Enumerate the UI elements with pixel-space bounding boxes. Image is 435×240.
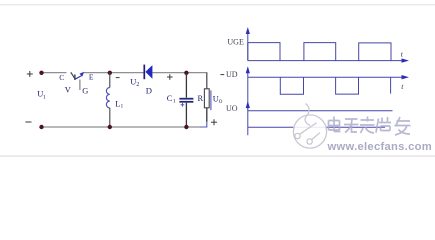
collector diagonal (71, 72, 75, 79)
waveform UGE pulse 1 (248, 43, 280, 61)
node + (UD right polarity mark) (167, 74, 173, 80)
waveform UO time axis (248, 110, 393, 112)
emitter arrowhead (80, 72, 85, 77)
node (L1 bottom junction dot) (108, 125, 112, 129)
svg-text:UD: UD (226, 70, 238, 79)
svg-text:www.elecfans.com: www.elecfans.com (327, 141, 433, 153)
char 5 you (395, 117, 411, 135)
inductor L1 (106, 73, 109, 127)
watermark logo circle (293, 104, 326, 149)
svg-text:1: 1 (173, 99, 176, 105)
wire (top rail: input dot to transistor collector) (42, 72, 67, 74)
waveform UGE pulse 3 (359, 43, 391, 61)
svg-text:U: U (130, 78, 136, 87)
waveform UD time axis arrowhead (402, 75, 410, 79)
waveform UO vertical axis arrowhead (246, 101, 250, 108)
svg-text:O: O (219, 100, 223, 105)
source U1 label (37, 90, 46, 101)
waveform UGE pulse 2 (304, 43, 336, 61)
char 1 dian (329, 117, 341, 132)
watermark CJK text (stroke approximation) (329, 117, 411, 136)
waveform UO output level line (248, 126, 385, 128)
svg-text:V: V (65, 86, 71, 95)
svg-text:1: 1 (121, 104, 124, 110)
svg-text:C: C (167, 94, 173, 103)
svg-text:t: t (401, 82, 404, 91)
node (C1 top junction dot) (184, 71, 188, 75)
wire (bottom rail) (42, 126, 201, 128)
waveform UGE time axis arrowhead (402, 58, 410, 62)
node - (UD left polarity mark) (116, 77, 120, 79)
resistor R body (204, 89, 209, 108)
wire (top rail: diode to right corner) (152, 72, 207, 74)
char 3 fa (360, 117, 375, 134)
node (Uo bracket line) (210, 90, 212, 110)
node + (input positive terminal mark) (27, 71, 33, 77)
wire (top rail: emitter to diode) (84, 72, 144, 74)
waveform UD dip 3 edge (390, 77, 392, 93)
node (input - junction dot) (39, 125, 43, 129)
svg-text:UO: UO (226, 104, 238, 113)
page top rule (0, 4, 435, 5)
node (input + junction dot) (39, 71, 43, 75)
diode D triangle (145, 65, 152, 79)
page bottom rule (0, 155, 435, 156)
svg-text:2: 2 (136, 82, 139, 88)
net label Uo (output voltage) (213, 95, 223, 105)
svg-text:t: t (401, 49, 404, 58)
waveform UD dip 1 (280, 77, 303, 94)
node - (input negative terminal mark) (25, 121, 31, 123)
waveform UGE time axis (248, 60, 403, 62)
wire (bottom rail right blue corner) (200, 121, 207, 128)
inductor label L1 (115, 99, 123, 109)
wire (right corner down to R) (206, 73, 208, 89)
waveform UGE vertical axis (247, 31, 249, 61)
svg-text:1: 1 (43, 95, 46, 101)
wire (R bottom lead) (206, 108, 208, 122)
gate lead (79, 80, 81, 91)
waveform UO vertical axis (247, 106, 249, 136)
capacitor label C1 (167, 94, 176, 104)
svg-text:C: C (59, 73, 64, 82)
bar (74, 74, 76, 80)
waveform UD vertical axis (247, 71, 249, 110)
svg-text:G: G (82, 86, 88, 95)
svg-text:UGE: UGE (227, 38, 244, 47)
net label U2 (diode voltage) (130, 78, 139, 88)
char 2 zi (344, 119, 359, 133)
svg-text:R: R (198, 94, 204, 103)
char 4 shao (376, 117, 391, 133)
node + (C1 bottom polarity mark) (181, 103, 185, 107)
waveform UD dip 2 (336, 77, 359, 94)
capacitor C1 (179, 73, 193, 127)
node (C1 bottom junction dot) (184, 125, 188, 129)
node - (Uo top polarity mark) (220, 74, 224, 76)
node + (Uo bottom polarity mark) (211, 119, 217, 125)
waveform UD time axis (248, 76, 403, 78)
waveform UGE vertical axis arrowhead (246, 27, 250, 34)
emitter line (blue) (75, 76, 82, 79)
waveform UD vertical axis arrowhead (246, 66, 250, 73)
node (L1 top junction dot) (108, 71, 112, 75)
svg-text:D: D (146, 85, 152, 95)
svg-text:E: E (89, 72, 94, 81)
diode D cathode bar (143, 65, 145, 80)
transistor V (IGBT, C-G-E) (71, 72, 84, 90)
